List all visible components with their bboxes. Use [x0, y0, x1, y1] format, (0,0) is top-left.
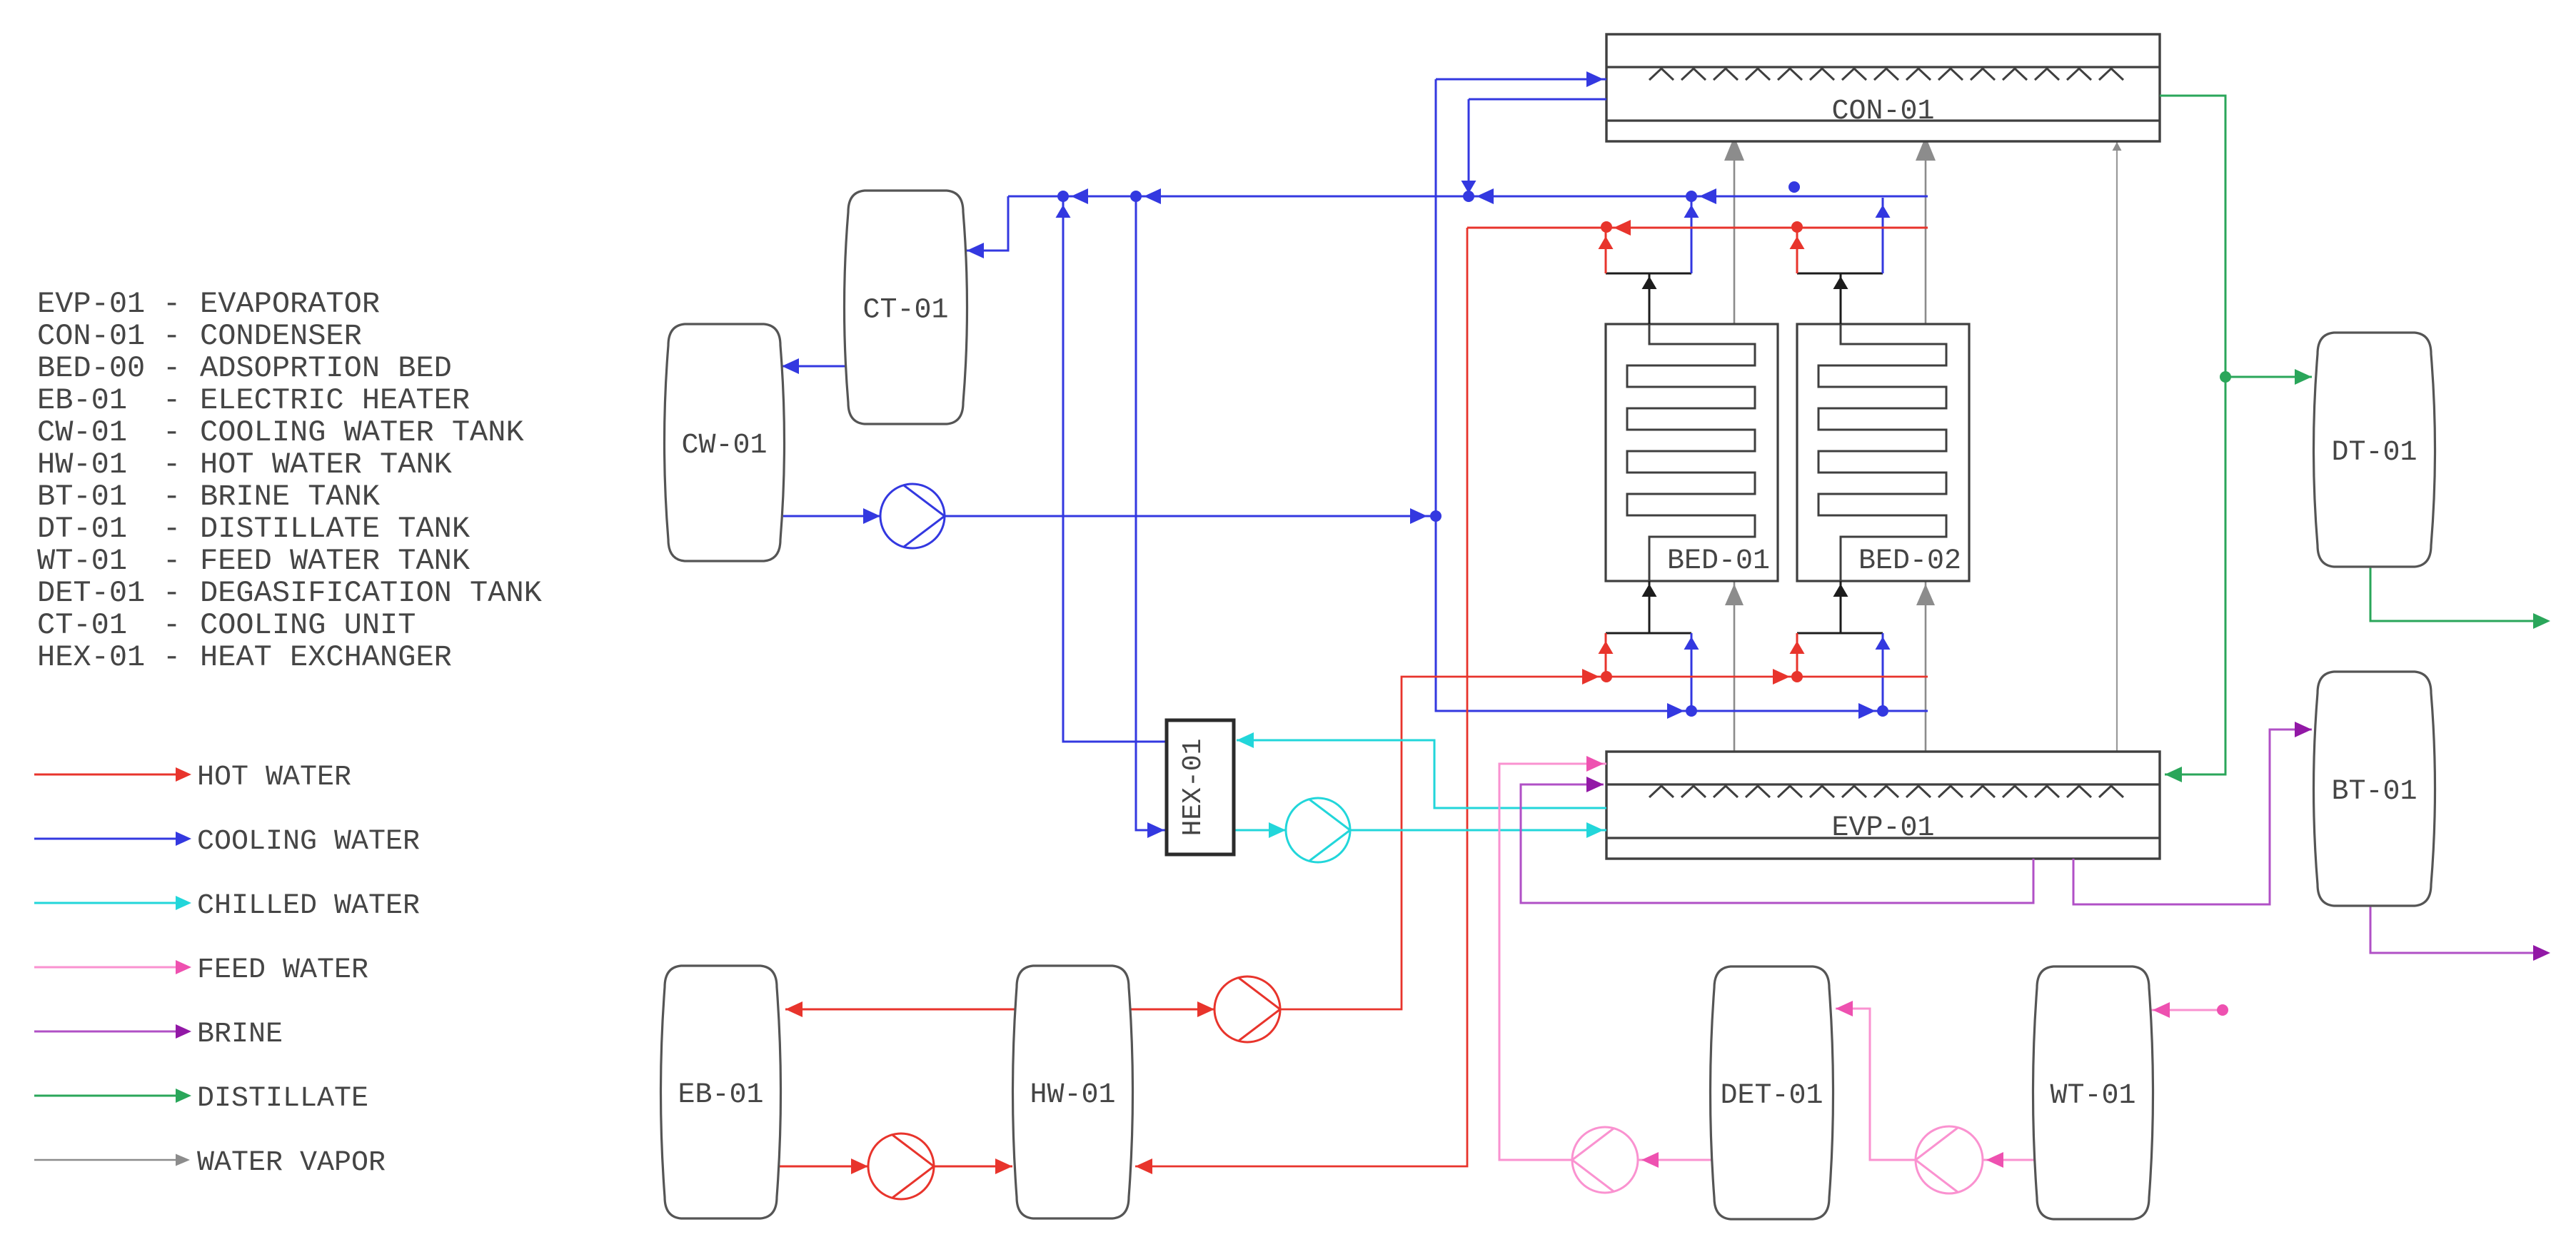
- svg-text:CON-01: CON-01: [1831, 96, 1934, 128]
- svg-text:HW-01-HOT WATER TANK: HW-01-HOT WATER TANK: [37, 448, 453, 482]
- svg-text:DET-01-DEGASIFICATION TANK: DET-01-DEGASIFICATION TANK: [37, 576, 543, 610]
- svg-text:BT-01-BRINE TANK: BT-01-BRINE TANK: [37, 480, 381, 514]
- svg-text:CHILLED WATER: CHILLED WATER: [197, 890, 420, 922]
- svg-text:HEX-01-HEAT EXCHANGER: HEX-01-HEAT EXCHANGER: [37, 640, 452, 675]
- svg-text:DT-01: DT-01: [2331, 437, 2417, 469]
- svg-text:WT-01: WT-01: [2050, 1080, 2135, 1112]
- svg-text:DT-01-DISTILLATE TANK: DT-01-DISTILLATE TANK: [37, 512, 471, 546]
- svg-text:EVP-01-EVAPORATOR: EVP-01-EVAPORATOR: [37, 287, 380, 321]
- svg-text:EB-01-ELECTRIC HEATER: EB-01-ELECTRIC HEATER: [37, 383, 470, 418]
- svg-text:COOLING WATER: COOLING WATER: [197, 826, 420, 858]
- svg-text:DISTILLATE: DISTILLATE: [197, 1083, 368, 1115]
- svg-text:HEX-01: HEX-01: [1178, 739, 1209, 837]
- svg-text:DET-01: DET-01: [1720, 1080, 1823, 1112]
- svg-text:BED-02: BED-02: [1858, 545, 1961, 577]
- svg-text:CW-01-COOLING WATER TANK: CW-01-COOLING WATER TANK: [37, 415, 524, 450]
- svg-text:BRINE: BRINE: [197, 1019, 283, 1051]
- svg-text:CON-01-CONDENSER: CON-01-CONDENSER: [37, 319, 362, 353]
- svg-text:WT-01-FEED WATER TANK: WT-01-FEED WATER TANK: [37, 544, 471, 578]
- svg-text:CT-01: CT-01: [862, 295, 948, 327]
- svg-text:EB-01: EB-01: [678, 1079, 763, 1111]
- svg-text:EVP-01: EVP-01: [1831, 812, 1934, 844]
- svg-text:BED-00-ADSOPRTION BED: BED-00-ADSOPRTION BED: [37, 351, 452, 385]
- svg-text:BED-01: BED-01: [1667, 545, 1770, 577]
- svg-text:CT-01-COOLING UNIT: CT-01-COOLING UNIT: [37, 608, 416, 642]
- svg-text:WATER VAPOR: WATER VAPOR: [197, 1147, 386, 1179]
- svg-text:FEED WATER: FEED WATER: [197, 954, 368, 986]
- svg-text:HOT WATER: HOT WATER: [197, 762, 351, 794]
- svg-text:CW-01: CW-01: [681, 430, 767, 462]
- svg-text:BT-01: BT-01: [2331, 776, 2417, 808]
- svg-text:HW-01: HW-01: [1030, 1079, 1115, 1111]
